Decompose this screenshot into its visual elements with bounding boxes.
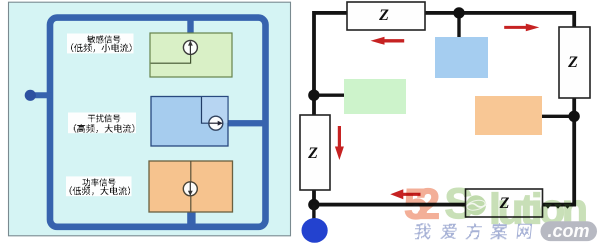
ground terminal (blue circle) — [302, 218, 328, 243]
blue block — [435, 37, 488, 78]
left terminal dot — [25, 90, 36, 101]
current source circle (interference) — [209, 116, 223, 130]
wire stub to ground terminal — [312, 205, 315, 223]
impedance Z bottom — [466, 189, 543, 217]
internal trace in blue box — [202, 97, 210, 123]
label: interference signal — [68, 113, 136, 134]
watermark chinese row — [414, 223, 432, 239]
watermark stylized o disc — [466, 195, 486, 215]
wire orange block to right bus — [541, 115, 574, 118]
lighter sub-block top-right — [202, 97, 228, 123]
red arrow top-left (points left) — [371, 37, 405, 45]
current source circle (sensitive) — [183, 40, 197, 54]
red arrow bottom (points left) — [390, 189, 420, 199]
impedance Z left — [300, 115, 330, 190]
up arrow in sensitive source — [189, 42, 191, 55]
current source circle (power) — [183, 182, 197, 196]
label: power signal — [66, 176, 132, 196]
impedance Z right — [559, 27, 590, 98]
stub from interference module — [221, 120, 263, 126]
wire to green block — [314, 93, 345, 96]
stub to power module — [187, 209, 195, 225]
label: sensitive signal — [67, 34, 134, 54]
green block — [344, 79, 406, 114]
red arrow top-right (points right) — [504, 24, 539, 32]
svg-text:Z: Z — [307, 145, 318, 162]
stub to sensitive module — [187, 19, 193, 41]
junction node bottom-left — [308, 199, 319, 210]
left stub wire — [30, 92, 52, 98]
interference module (blue box) — [151, 97, 228, 147]
watermark .com pill — [541, 221, 598, 241]
svg-text:.com: .com — [547, 221, 589, 241]
ground loop (blue rounded rectangle bus) — [50, 18, 266, 227]
junction node right — [568, 111, 579, 122]
junction node top — [453, 7, 464, 18]
svg-text:52: 52 — [404, 181, 440, 229]
red arrow left-side (points down) — [335, 126, 344, 160]
internal trace in orange box — [190, 161, 192, 212]
svg-text:Z: Z — [567, 54, 578, 71]
down arrow in power source — [189, 182, 191, 195]
impedance Z top — [347, 2, 425, 30]
svg-text:Z: Z — [378, 7, 389, 24]
sensitive module (green box) — [150, 33, 232, 77]
blend artifact triangles on bottom wire — [544, 204, 572, 209]
internal return trace in green box — [151, 52, 191, 63]
left PCB panel background — [9, 2, 291, 236]
wire loop — [314, 13, 574, 205]
power module (orange box) — [149, 161, 233, 212]
junction node left — [308, 90, 319, 101]
orange block — [475, 96, 542, 135]
wire drop to blue block — [457, 13, 460, 38]
right arrow in interference source — [209, 122, 222, 124]
